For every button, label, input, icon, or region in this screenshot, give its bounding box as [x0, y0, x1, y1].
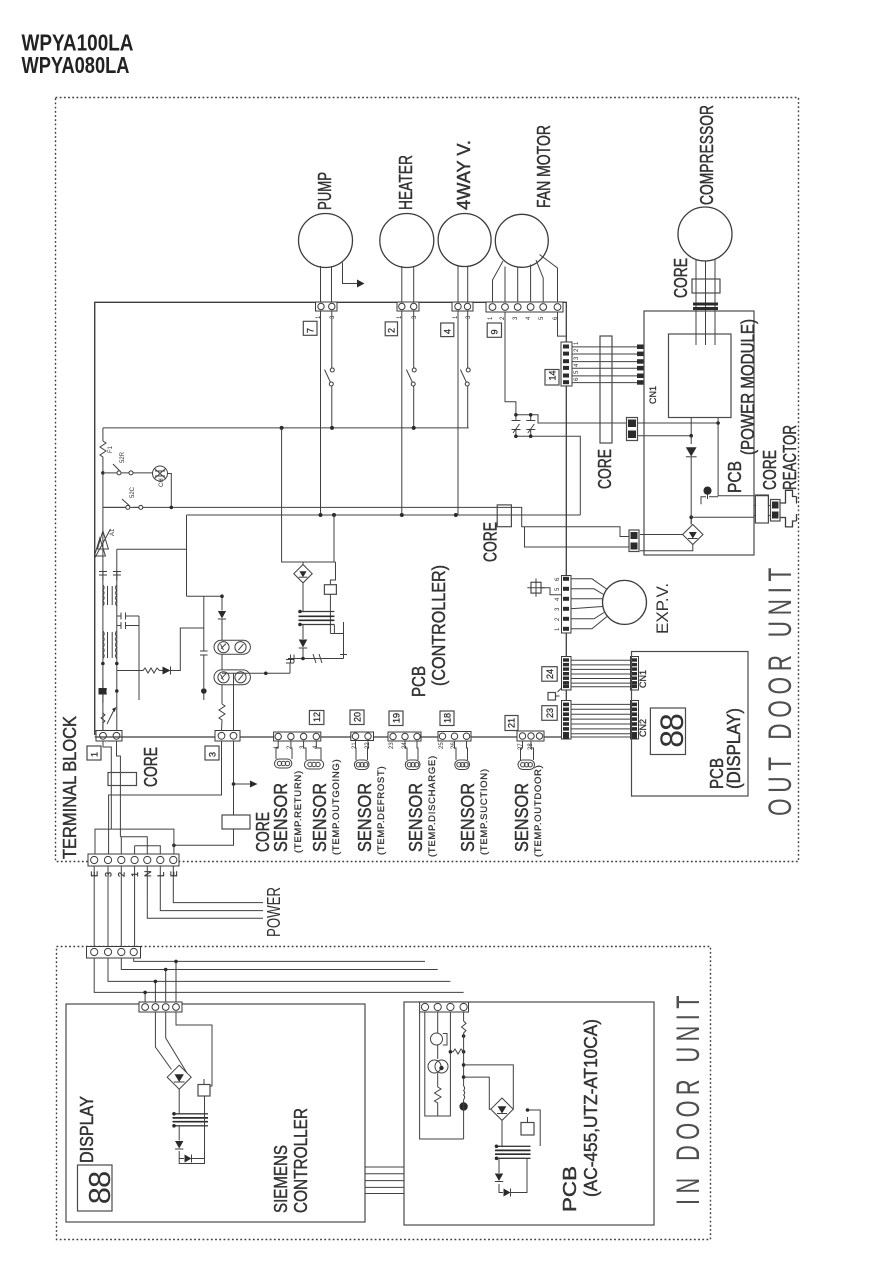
svg-text:POWER: POWER	[264, 887, 284, 937]
indoor pcb connector	[420, 1002, 469, 1012]
connector 2	[397, 302, 419, 311]
svg-text:14: 14	[548, 370, 558, 380]
connector 12	[274, 732, 321, 741]
wire cap tops	[516, 415, 627, 423]
crankcase heater CH	[153, 466, 168, 481]
outdoor unit dashed border	[56, 98, 799, 862]
junction dots on upper bus	[280, 426, 284, 430]
indoor resistor	[435, 1087, 442, 1116]
connector 4	[452, 302, 473, 311]
indoor fuse	[437, 1012, 439, 1033]
svg-text:F1: F1	[108, 445, 114, 453]
svg-text:CORE: CORE	[595, 449, 615, 489]
wires compressor to power module	[696, 260, 715, 346]
ribbon CN2	[571, 704, 631, 737]
core 1	[108, 773, 137, 786]
indoor transformer	[501, 1120, 503, 1146]
svg-text:FAN MOTOR: FAN MOTOR	[534, 125, 554, 208]
connector 18	[438, 732, 471, 742]
label box 7	[303, 321, 317, 335]
svg-text:88: 88	[654, 714, 690, 748]
svg-text:2: 2	[387, 328, 397, 333]
label box 2	[385, 322, 397, 336]
zener column	[203, 596, 205, 651]
fan capacitor 1	[512, 415, 521, 436]
indoor diode 1	[495, 1174, 503, 1182]
svg-text:PCB: PCB	[409, 666, 429, 697]
IPM block	[669, 334, 732, 418]
svg-text:SENSOR: SENSOR	[271, 783, 291, 852]
common mode choke 1	[103, 585, 104, 606]
connector 24 pins	[562, 657, 572, 691]
wire x282 crossing	[282, 428, 294, 562]
svg-text:24: 24	[545, 669, 555, 679]
wire conn3 right pin to core2	[233, 741, 235, 815]
svg-text:DISPLAY: DISPLAY	[77, 1096, 97, 1163]
wire fan pin6 stub	[558, 312, 567, 336]
svg-text:SENSOR: SENSOR	[512, 783, 532, 852]
svg-text:CORE: CORE	[253, 812, 273, 852]
label box 12	[309, 711, 324, 725]
core 2	[222, 815, 250, 829]
connector 1	[96, 731, 122, 742]
resistor to connector 3	[219, 704, 225, 731]
svg-text:CORE: CORE	[481, 522, 501, 562]
compressor M	[678, 207, 732, 261]
power wires	[147, 866, 263, 918]
relay contact 4way	[467, 311, 469, 428]
svg-text:TERMINAL BLOCK: TERMINAL BLOCK	[60, 716, 80, 859]
junction dot CH branch	[101, 471, 105, 475]
svg-text:CORE: CORE	[671, 258, 691, 298]
core on ribbon	[600, 336, 612, 443]
power module board outline	[644, 311, 754, 555]
svg-text:CN2: CN2	[638, 719, 648, 737]
heater M	[380, 214, 434, 268]
output filter row	[288, 651, 347, 664]
wire heater to connector 2	[402, 266, 414, 303]
svg-text:19: 19	[392, 713, 402, 723]
varistor	[101, 710, 114, 731]
wire CH return	[133, 473, 171, 508]
indoor diode 2	[504, 1189, 511, 1197]
indoor bridge feeds	[464, 1065, 514, 1109]
controller bottom edge	[95, 736, 567, 738]
indoor input frame	[420, 1012, 464, 1139]
connector 14 on controller edge	[561, 342, 572, 386]
svg-text:E: E	[169, 871, 179, 877]
wire conn3 left pin to terminal 3	[109, 741, 222, 854]
indoor display box	[78, 1165, 113, 1211]
connector 23 pins	[562, 701, 572, 740]
ferrite band on compressor leads	[693, 303, 718, 306]
svg-text:(TEMP.RETURN): (TEMP.RETURN)	[293, 770, 304, 853]
svg-text:25: 25	[439, 742, 445, 749]
x-capacitor ticks	[99, 572, 121, 581]
wire conn1 left pin through core1 to earth bracket	[103, 741, 111, 829]
ribbon controller to power module	[572, 347, 640, 383]
wire live rail to arrester	[102, 507, 104, 731]
ribbon CN1	[571, 660, 631, 686]
svg-text:21: 21	[507, 718, 517, 728]
module ribbon header pins	[637, 345, 644, 350]
svg-text:SENSOR: SENSOR	[310, 783, 330, 852]
svg-text:CONTROLLER: CONTROLLER	[291, 1108, 311, 1213]
connector 21	[517, 731, 544, 741]
indoor varistor link	[438, 1012, 451, 1116]
earth bracket link	[95, 829, 174, 854]
svg-text:(TEMP.SUCTION): (TEMP.SUCTION)	[479, 768, 490, 855]
fan motor M	[495, 214, 548, 267]
bridge rectifier power module	[683, 525, 703, 545]
ribbon siemens to pcb	[365, 1167, 404, 1194]
indoor switch leg	[462, 1012, 467, 1033]
svg-text:(AC-455,UTZ-AT10CA): (AC-455,UTZ-AT10CA)	[581, 1019, 601, 1197]
label box 3	[205, 746, 219, 760]
svg-text:(TEMP.OUTDOOR): (TEMP.OUTDOOR)	[533, 765, 544, 857]
indoor feed strip	[87, 947, 141, 959]
expansion valve connector pins	[562, 576, 572, 634]
svg-text:N: N	[143, 871, 153, 878]
svg-text:(CONTROLLER): (CONTROLLER)	[429, 565, 449, 686]
wires to expansion valve	[571, 579, 607, 629]
svg-text:4WAY V.: 4WAY V.	[454, 140, 474, 210]
svg-text:CN1: CN1	[638, 670, 648, 688]
terminal block strip	[88, 854, 179, 866]
connector 3	[215, 731, 240, 742]
y-capacitors to stub	[117, 613, 139, 701]
label box 18	[440, 711, 454, 726]
svg-text:CORE: CORE	[141, 747, 161, 787]
connector 19	[388, 732, 421, 741]
thermistor outgoing	[304, 741, 321, 760]
wire psu feed line	[187, 595, 223, 597]
wire opto2 out	[222, 660, 294, 731]
wires fan motor to connector 9	[493, 255, 558, 303]
svg-text:CH: CH	[159, 478, 165, 487]
svg-text:IN DOOR UNIT: IN DOOR UNIT	[670, 990, 706, 1205]
bridge rectifier psu	[294, 565, 312, 583]
indoor bridge rectifier	[491, 1098, 513, 1120]
connector 9	[486, 302, 563, 312]
reactor body	[780, 490, 797, 527]
svg-text:EXP.V.: EXP.V.	[653, 583, 672, 634]
x-capacitor lower	[99, 680, 107, 703]
siemens controller box	[66, 1004, 365, 1222]
thermistor return	[276, 741, 292, 759]
svg-text:(DISPLAY): (DISPLAY)	[724, 708, 744, 789]
svg-text:7: 7	[306, 328, 316, 333]
thermistor suction	[455, 741, 468, 760]
relay contact heater	[413, 311, 415, 428]
svg-text:(TEMP.DEFROST): (TEMP.DEFROST)	[376, 766, 387, 855]
wire neutral rail	[116, 549, 118, 731]
switch 52C	[105, 464, 129, 473]
svg-text:HEATER: HEATER	[396, 155, 416, 210]
wire sub-psu feed	[187, 515, 335, 596]
label box 20	[350, 710, 364, 725]
switching transformer	[299, 611, 335, 613]
label box 14	[545, 370, 559, 386]
core on reactor leads	[755, 495, 768, 523]
wire opto links	[221, 654, 223, 704]
svg-text:WPYA080LA: WPYA080LA	[22, 52, 130, 78]
wire cap bottoms	[516, 436, 580, 515]
title model numbers	[22, 30, 134, 79]
siemens snubber block	[198, 1085, 210, 1097]
indoor secondary loop	[499, 1158, 527, 1192]
siemens bridge rectifier	[167, 1065, 191, 1089]
drops from power runs to siemens connector	[145, 961, 176, 1002]
relay contact pump	[331, 311, 333, 428]
svg-text:COMPRESSOR: COMPRESSOR	[697, 105, 717, 205]
wires terminal to indoor strip	[94, 866, 134, 947]
wire bus mid	[103, 507, 627, 536]
svg-text:SENSOR: SENSOR	[355, 783, 375, 852]
siemens transformer	[178, 1089, 180, 1113]
svg-text:18: 18	[443, 713, 453, 723]
bleed resistor and diode to psu	[117, 668, 163, 673]
wire bus lower	[187, 514, 581, 516]
wire fan pin2 to capacitors	[505, 312, 516, 415]
jumper component	[548, 693, 556, 701]
label box 19	[389, 711, 403, 726]
label box 9	[487, 323, 501, 337]
svg-text:20: 20	[353, 712, 363, 722]
svg-text:88: 88	[82, 1172, 117, 1204]
wire psu top rail	[294, 560, 336, 565]
indoor overload protector	[428, 1060, 441, 1073]
opto coupler 2	[214, 670, 250, 685]
display connector CN2	[631, 701, 639, 740]
svg-text:9: 9	[490, 329, 500, 334]
label box 4	[441, 323, 454, 337]
relay coil block	[330, 562, 335, 585]
opto coupler 1	[214, 640, 250, 654]
indoor coil	[464, 1086, 465, 1100]
PCB controller outline	[95, 302, 567, 737]
wire pump to connector 7	[321, 266, 332, 303]
svg-text:REACTOR: REACTOR	[780, 425, 800, 490]
wire through core horizontal	[497, 506, 510, 508]
indoor unit dashed border	[57, 947, 711, 1240]
wire core2 to terminal E2	[174, 829, 234, 845]
fastening terminal	[701, 497, 718, 505]
junction dot ground	[201, 688, 207, 694]
edge connector (black) fan caps line	[627, 418, 638, 441]
bracket link 2	[120, 837, 147, 854]
test pin	[531, 582, 541, 593]
thermistor discharge	[405, 741, 418, 760]
label box 23	[542, 706, 557, 721]
svg-text:52C: 52C	[130, 486, 136, 498]
label box 21	[505, 716, 518, 731]
siemens diode 1	[175, 1141, 183, 1149]
svg-text:12: 12	[312, 712, 322, 722]
fan capacitor 2	[526, 415, 535, 436]
svg-text:SENSOR: SENSOR	[458, 783, 478, 852]
pump drain arrow	[343, 263, 359, 284]
display connector CN1	[631, 657, 639, 691]
wire 4way to connector 4	[458, 266, 468, 303]
connector 20	[351, 732, 374, 741]
wire conn1 right pin through core1	[117, 741, 121, 837]
switch 52C on mid bus	[103, 499, 139, 507]
svg-text:4: 4	[443, 329, 453, 334]
svg-text:23: 23	[389, 742, 395, 749]
svg-text:L: L	[156, 872, 166, 877]
svg-text:CN1: CN1	[648, 386, 658, 404]
svg-text:(TEMP.OUTGOING): (TEMP.OUTGOING)	[331, 759, 342, 855]
wire left pins down to lower bus	[321, 311, 459, 515]
reactor connector	[771, 500, 781, 522]
siemens diode 2	[185, 1155, 192, 1163]
core on mid bus	[497, 505, 511, 527]
svg-text:52R: 52R	[120, 451, 126, 463]
common mode choke 2	[103, 631, 104, 659]
indoor ground lug	[459, 1102, 467, 1110]
svg-text:OUT DOOR UNIT: OUT DOOR UNIT	[762, 562, 798, 816]
earth arrow	[234, 783, 252, 785]
indoor pcb box	[404, 1002, 654, 1225]
thermistor defrost	[356, 741, 369, 761]
indoor snubber block	[521, 1123, 534, 1136]
label box 24	[542, 667, 557, 682]
pump motor M	[299, 214, 353, 268]
svg-text:PCB: PCB	[560, 1166, 580, 1212]
svg-text:PUMP: PUMP	[315, 172, 335, 210]
wire bus upper	[103, 427, 469, 429]
resistor fuse on live rail	[100, 441, 106, 473]
surge arrester	[94, 529, 110, 558]
wires bridge connections	[690, 517, 692, 524]
junction dots filter	[101, 662, 105, 666]
7-segment display 88	[650, 708, 685, 755]
svg-text:(POWER MODULE): (POWER MODULE)	[738, 319, 758, 455]
label box 1	[87, 746, 101, 760]
junction dots lower bus	[319, 513, 323, 517]
4way valve M	[438, 214, 491, 267]
svg-text:23: 23	[545, 708, 555, 718]
rectifier diode psu	[302, 625, 304, 640]
wire live rail	[102, 428, 104, 441]
siemens secondary loop	[179, 1096, 204, 1164]
bracket link 3	[135, 846, 161, 854]
siemens connector	[139, 1002, 182, 1012]
svg-text:SENSOR: SENSOR	[406, 783, 426, 852]
svg-text:SIEMENS: SIEMENS	[271, 1145, 291, 1213]
connector 7	[316, 302, 338, 311]
wire left rail	[94, 302, 96, 731]
thermistor outdoor	[521, 741, 534, 760]
siemens bridge feed wires	[155, 1012, 212, 1073]
display pcb outline	[632, 652, 749, 797]
svg-text:PCB: PCB	[725, 461, 745, 493]
svg-text:1: 1	[90, 752, 100, 757]
svg-text:CORE: CORE	[760, 450, 780, 490]
core on compressor leads	[692, 279, 720, 293]
svg-text:A1: A1	[110, 528, 116, 536]
svg-text:3: 3	[208, 752, 218, 757]
expansion valve coil	[603, 580, 647, 624]
wires IPM to bridge and connector	[691, 418, 754, 525]
wires indoor strip to pcb runs	[94, 958, 463, 992]
svg-text:(TEMP.DISCHARGE): (TEMP.DISCHARGE)	[427, 755, 438, 857]
diode on opto column	[221, 596, 223, 610]
edge connector (black) bridge line	[629, 530, 639, 552]
diode on dc link	[686, 447, 697, 456]
wire step to filter	[117, 548, 187, 550]
